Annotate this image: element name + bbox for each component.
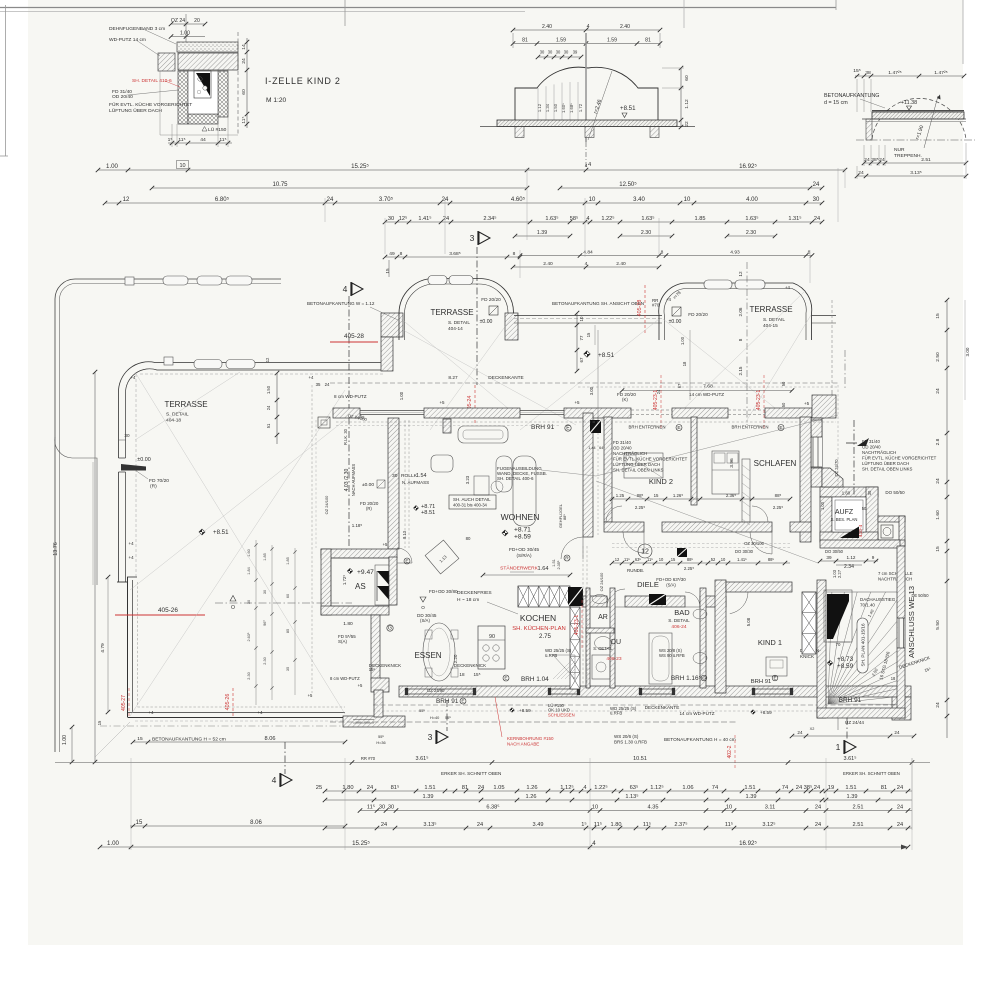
svg-text:+4: +4: [148, 710, 154, 715]
svg-text:SCHLAFEN: SCHLAFEN: [754, 459, 797, 468]
svg-text:8: 8: [661, 250, 664, 256]
svg-text:90: 90: [489, 634, 495, 640]
svg-text:405-26: 405-26: [225, 694, 231, 711]
svg-text:405-27: 405-27: [121, 695, 127, 711]
svg-text:2.30: 2.30: [263, 657, 267, 664]
svg-text:S(A): S(A): [338, 639, 347, 644]
svg-text:+8.59: +8.59: [519, 708, 531, 713]
svg-text:1.12: 1.12: [537, 103, 542, 112]
svg-text:1.00: 1.00: [107, 840, 120, 847]
svg-text:14 cm WD-PUTZ: 14 cm WD-PUTZ: [689, 392, 724, 397]
svg-text:3.00: 3.00: [965, 347, 970, 356]
svg-text:3.00: 3.00: [589, 386, 594, 395]
svg-text:+11.38: +11.38: [901, 100, 917, 106]
svg-text:+5: +5: [439, 400, 445, 405]
svg-text:35: 35: [286, 667, 290, 671]
svg-text:AS: AS: [355, 582, 366, 591]
svg-text:+4: +4: [309, 375, 315, 380]
svg-text:24: 24: [443, 216, 449, 222]
svg-text:(S/A): (S/A): [666, 583, 676, 588]
svg-text:+9.47: +9.47: [357, 569, 374, 576]
svg-text:18: 18: [459, 672, 465, 677]
svg-text:1.12: 1.12: [847, 555, 856, 560]
svg-text:55⁵: 55⁵: [378, 735, 384, 739]
svg-text:WOHNEN: WOHNEN: [501, 512, 540, 522]
svg-text:8.06: 8.06: [250, 820, 262, 826]
svg-text:±0.00: ±0.00: [480, 319, 493, 325]
svg-text:AR: AR: [598, 614, 608, 621]
svg-text:3.12⁵: 3.12⁵: [762, 821, 775, 828]
svg-text:11⁵: 11⁵: [219, 137, 226, 143]
svg-text:1⁵: 1⁵: [581, 821, 586, 828]
svg-text:3.61⁵: 3.61⁵: [416, 755, 429, 762]
svg-text:1.80: 1.80: [342, 785, 353, 791]
svg-text:BRH 91: BRH 91: [531, 424, 555, 431]
svg-text:4: 4: [586, 216, 589, 222]
svg-text:1.13⁵: 1.13⁵: [625, 793, 638, 800]
svg-text:+5: +5: [383, 542, 388, 547]
svg-text:39: 39: [573, 50, 578, 55]
svg-text:1.60: 1.60: [842, 491, 851, 496]
svg-text:S. DETAIL: S. DETAIL: [593, 646, 613, 651]
svg-text:LÜFTUNG ÜBER DACH: LÜFTUNG ÜBER DACH: [109, 107, 162, 114]
svg-text:1⁵: 1⁵: [168, 137, 173, 143]
svg-text:24: 24: [897, 822, 903, 828]
svg-text:30: 30: [263, 590, 267, 594]
svg-text:+4: +4: [129, 541, 135, 546]
svg-text:(S/R/A): (S/R/A): [516, 553, 532, 558]
svg-text:SH. PLAN 401-15/16: SH. PLAN 401-15/16: [861, 623, 866, 666]
svg-text:2.37⁵: 2.37⁵: [674, 821, 687, 828]
svg-text:8: 8: [400, 251, 403, 257]
svg-text:2.40: 2.40: [543, 261, 553, 267]
svg-text:1.63⁵: 1.63⁵: [745, 215, 758, 222]
svg-text:+4: +4: [257, 710, 263, 715]
svg-text:2.30: 2.30: [641, 230, 651, 236]
svg-text:2.8: 2.8: [935, 438, 941, 445]
svg-text:DO 30/30: DO 30/30: [735, 549, 754, 554]
svg-text:2.51: 2.51: [853, 822, 864, 828]
svg-text:81⁵: 81⁵: [391, 784, 400, 791]
svg-text:DE 50/50: DE 50/50: [911, 593, 929, 598]
svg-text:+8.71: +8.71: [514, 527, 531, 534]
svg-text:11⁵: 11⁵: [647, 557, 653, 562]
svg-text:2.35⁵: 2.35⁵: [557, 560, 561, 569]
svg-text:+4: +4: [785, 285, 791, 290]
svg-text:G: G: [702, 675, 706, 680]
svg-text:38: 38: [865, 70, 871, 76]
svg-text:4: 4: [585, 261, 588, 267]
svg-text:FD 70/20: FD 70/20: [149, 478, 169, 484]
svg-text:BRH ENTFERNEN: BRH ENTFERNEN: [732, 425, 769, 430]
svg-text:ERKER SH. SCHNITT OBEN: ERKER SH. SCHNITT OBEN: [441, 771, 501, 776]
svg-text:30: 30: [540, 50, 545, 55]
svg-text:11⁵: 11⁵: [241, 116, 247, 123]
svg-text:18: 18: [891, 676, 896, 681]
svg-text:60: 60: [241, 89, 247, 95]
svg-text:24: 24: [879, 157, 885, 163]
svg-text:400-31 bis 400-34: 400-31 bis 400-34: [453, 503, 488, 508]
svg-text:FD 31/40: FD 31/40: [613, 440, 631, 445]
svg-text:1.00: 1.00: [180, 31, 190, 37]
svg-text:S. DETAIL: S. DETAIL: [448, 320, 470, 326]
svg-text:+8.51: +8.51: [213, 529, 229, 536]
svg-text:(K): (K): [622, 397, 628, 402]
svg-text:63⁵: 63⁵: [630, 784, 639, 791]
svg-text:d = 15 cm: d = 15 cm: [824, 100, 848, 106]
svg-text:24: 24: [894, 730, 900, 735]
svg-text:KOCHEN: KOCHEN: [520, 613, 556, 623]
svg-text:1.00: 1.00: [820, 501, 825, 510]
svg-text:24: 24: [813, 182, 820, 188]
svg-text:1.25: 1.25: [616, 493, 625, 498]
svg-text:39: 39: [826, 555, 832, 560]
svg-text:8.06: 8.06: [265, 736, 276, 742]
svg-text:24: 24: [815, 805, 821, 811]
svg-text:1.80: 1.80: [343, 621, 353, 627]
svg-text:10: 10: [684, 197, 691, 203]
svg-text:BRH 91: BRH 91: [436, 698, 459, 705]
svg-text:DACHAUSSTIEG: DACHAUSSTIEG: [860, 597, 896, 602]
svg-text:12⁵: 12⁵: [399, 215, 408, 222]
svg-text:2.40: 2.40: [620, 24, 630, 30]
svg-text:1.39: 1.39: [847, 794, 858, 800]
svg-text:2.36⁵: 2.36⁵: [726, 493, 736, 498]
svg-text:DU: DU: [611, 639, 621, 646]
svg-text:24: 24: [325, 382, 330, 387]
svg-text:BRS 1.30 ü.RFB: BRS 1.30 ü.RFB: [614, 740, 647, 745]
svg-text:64⁵: 64⁵: [599, 446, 605, 450]
svg-text:BETONAUFKANTUNG SH. ANSICHT: BETONAUFKANTUNG SH. ANSICHT OBEN: [552, 301, 644, 306]
svg-text:1.22⁵: 1.22⁵: [601, 215, 614, 222]
svg-text:1: 1: [836, 742, 841, 752]
svg-text:FÜR EVTL. KÜCHE VORGERICHTET: FÜR EVTL. KÜCHE VORGERICHTET: [862, 456, 937, 461]
svg-text:WS 20/6 (S): WS 20/6 (S): [614, 734, 639, 739]
svg-text:S. BES. PLAN: S. BES. PLAN: [831, 517, 858, 522]
svg-text:ESSEN: ESSEN: [414, 651, 441, 660]
svg-text:1.26⁵: 1.26⁵: [673, 493, 683, 498]
svg-text:15.25⁵: 15.25⁵: [352, 840, 370, 847]
svg-text:19: 19: [828, 785, 834, 791]
svg-text:4.84: 4.84: [583, 250, 593, 256]
svg-text:KIND 2: KIND 2: [649, 477, 673, 486]
svg-text:14 cm WD-PUTZ: 14 cm WD-PUTZ: [679, 711, 714, 716]
svg-text:3.68⁵: 3.68⁵: [449, 251, 460, 257]
svg-text:3.13⁵: 3.13⁵: [423, 821, 436, 828]
svg-text:M 1:20: M 1:20: [266, 97, 286, 104]
svg-text:1.41⁵: 1.41⁵: [737, 557, 747, 562]
svg-text:+8.51: +8.51: [620, 105, 636, 112]
svg-text:2.75: 2.75: [539, 633, 552, 640]
svg-text:STÄNDERWERK: STÄNDERWERK: [500, 565, 538, 572]
svg-text:O: O: [421, 605, 425, 610]
svg-text:1.39: 1.39: [423, 794, 434, 800]
svg-text:1.50: 1.50: [553, 103, 558, 112]
svg-text:30: 30: [813, 197, 820, 203]
svg-text:1.00: 1.00: [62, 735, 68, 745]
svg-text:24: 24: [858, 170, 864, 176]
svg-text:30: 30: [548, 50, 553, 55]
svg-text:+4: +4: [666, 297, 672, 302]
svg-text:4.79: 4.79: [100, 643, 106, 653]
svg-text:1.00: 1.00: [680, 336, 685, 345]
svg-text:405-23-1: 405-23-1: [574, 615, 580, 636]
svg-text:24: 24: [935, 388, 941, 394]
svg-text:1.39: 1.39: [746, 794, 757, 800]
svg-text:DO 30/50: DO 30/50: [825, 549, 844, 554]
svg-text:3.96: 3.96: [729, 458, 735, 468]
svg-text:24: 24: [815, 822, 821, 828]
svg-text:406-24: 406-24: [671, 624, 686, 630]
svg-text:2.25⁵: 2.25⁵: [635, 505, 645, 510]
svg-text:22: 22: [684, 121, 690, 127]
svg-text:1.47²⁵: 1.47²⁵: [888, 70, 901, 76]
svg-text:405-26: 405-26: [158, 607, 178, 614]
svg-text:10: 10: [589, 197, 596, 203]
svg-text:DEHNFUGENBAND 3 cm: DEHNFUGENBAND 3 cm: [109, 26, 165, 32]
svg-text:1.44: 1.44: [588, 446, 595, 450]
svg-text:BRH 1.04: BRH 1.04: [521, 676, 549, 683]
svg-text:S. DETAIL: S. DETAIL: [763, 317, 785, 323]
svg-text:3.23: 3.23: [465, 475, 470, 484]
svg-text:3.40: 3.40: [633, 197, 645, 203]
svg-text:1.68⁵: 1.68⁵: [569, 103, 574, 113]
svg-text:11⁵: 11⁵: [594, 821, 602, 828]
svg-text:OZ 24/100: OZ 24/100: [599, 572, 604, 592]
svg-text:+5: +5: [358, 683, 363, 688]
svg-text:4.35: 4.35: [648, 805, 659, 811]
svg-text:24: 24: [266, 405, 271, 410]
svg-text:70/1.40: 70/1.40: [860, 603, 875, 608]
svg-text:3.49: 3.49: [533, 822, 544, 828]
svg-text:X2: X2: [810, 727, 815, 731]
svg-text:24: 24: [897, 785, 904, 791]
svg-text:DECKENKANTE: DECKENKANTE: [645, 705, 680, 710]
svg-text:30: 30: [564, 50, 569, 55]
svg-text:FD+OD 63⁵/30: FD+OD 63⁵/30: [656, 577, 686, 582]
svg-text:LÜ #150: LÜ #150: [208, 126, 227, 133]
svg-text:OZ 30/100: OZ 30/100: [744, 541, 765, 546]
svg-text:6.38⁵: 6.38⁵: [486, 804, 499, 811]
svg-text:405-28: 405-28: [344, 333, 364, 340]
svg-text:2.27: 2.27: [837, 569, 842, 578]
svg-text:1.51: 1.51: [845, 785, 856, 791]
svg-text:FD+OD 30/80: FD+OD 30/80: [429, 589, 458, 594]
svg-text:50: 50: [781, 381, 786, 386]
svg-text:S. DETAIL: S. DETAIL: [668, 618, 690, 623]
svg-text:ERKER SH. SCHNITT OBEN: ERKER SH. SCHNITT OBEN: [843, 771, 900, 776]
svg-text:404-15: 404-15: [763, 323, 778, 329]
svg-text:15⁵: 15⁵: [369, 667, 376, 672]
svg-text:8 cm WD-PUTZ: 8 cm WD-PUTZ: [334, 394, 367, 399]
svg-text:11⁵: 11⁵: [643, 821, 651, 828]
svg-text:30: 30: [392, 473, 398, 479]
svg-text:1.64: 1.64: [538, 566, 549, 572]
svg-text:96⁰: 96⁰: [263, 620, 267, 626]
svg-text:15: 15: [137, 736, 143, 742]
svg-text:3: 3: [428, 732, 433, 742]
svg-text:24: 24: [814, 216, 820, 222]
svg-text:30: 30: [379, 805, 385, 811]
svg-text:52: 52: [711, 557, 716, 562]
svg-text:4: 4: [592, 840, 596, 847]
svg-text:+8.51: +8.51: [598, 352, 615, 359]
svg-text:OD 20/40: OD 20/40: [613, 446, 632, 451]
svg-text:2.40: 2.40: [542, 24, 552, 30]
svg-text:4.00: 4.00: [746, 197, 758, 203]
svg-text:1.22⁵: 1.22⁵: [594, 784, 608, 791]
svg-text:24: 24: [241, 58, 247, 64]
svg-text:24: 24: [327, 197, 334, 203]
svg-text:4.60⁵: 4.60⁵: [511, 196, 526, 203]
svg-text:1.12⁵: 1.12⁵: [560, 784, 574, 791]
svg-text:12: 12: [123, 197, 130, 203]
svg-text:R.LK. 30: R.LK. 30: [343, 428, 348, 445]
svg-text:30: 30: [124, 433, 130, 438]
svg-text:49: 49: [389, 251, 395, 257]
svg-text:I-ZELLE KIND 2: I-ZELLE KIND 2: [265, 76, 341, 86]
svg-text:25: 25: [316, 785, 322, 791]
svg-text:#70: #70: [652, 303, 660, 308]
svg-text:DO 50/50: DO 50/50: [885, 490, 905, 495]
svg-text:BRH ENTFERNEN: BRH ENTFERNEN: [629, 425, 666, 430]
svg-text:+8.73: +8.73: [837, 656, 854, 663]
svg-text:1.80: 1.80: [611, 822, 622, 828]
svg-text:KIND 1: KIND 1: [758, 638, 782, 647]
svg-text:1.06: 1.06: [682, 785, 693, 791]
svg-text:2.40: 2.40: [616, 261, 626, 267]
svg-text:12.50⁵: 12.50⁵: [619, 181, 637, 188]
svg-text:BETONAUFKANTUNG H = 40 cm: BETONAUFKANTUNG H = 40 cm: [664, 737, 736, 743]
svg-text:3.70⁵: 3.70⁵: [379, 196, 394, 203]
svg-text:1.63⁵: 1.63⁵: [641, 215, 654, 222]
svg-text:12: 12: [738, 271, 743, 277]
svg-text:FD 31/40: FD 31/40: [862, 439, 880, 444]
svg-text:BETONAUFKANTUNG H = 52 cm: BETONAUFKANTUNG H = 52 cm: [152, 737, 226, 743]
svg-text:50: 50: [862, 506, 867, 511]
svg-text:81: 81: [462, 785, 468, 791]
svg-text:74: 74: [782, 785, 789, 791]
svg-text:81: 81: [522, 38, 528, 44]
svg-text:2.30: 2.30: [247, 672, 251, 679]
svg-text:E: E: [773, 675, 776, 680]
svg-text:38⁵: 38⁵: [871, 157, 878, 163]
svg-text:85: 85: [286, 629, 290, 633]
svg-text:1.00: 1.00: [399, 391, 404, 400]
svg-text:74: 74: [712, 785, 719, 791]
svg-text:±0.00: ±0.00: [669, 319, 682, 325]
svg-text:1.72⁵: 1.72⁵: [342, 575, 347, 585]
svg-text:15.25⁵: 15.25⁵: [351, 163, 369, 170]
svg-text:24: 24: [442, 197, 449, 203]
svg-text:1.85: 1.85: [263, 553, 267, 560]
svg-text:1.59: 1.59: [556, 38, 566, 44]
svg-text:30: 30: [867, 490, 872, 495]
svg-text:SH. DETAIL 410-6: SH. DETAIL 410-6: [132, 78, 172, 84]
svg-text:NACHTRÄGLICH: NACHTRÄGLICH: [613, 451, 647, 456]
svg-text:LÜFTUNG ÜBER DACH: LÜFTUNG ÜBER DACH: [862, 461, 909, 466]
svg-text:±0.00: ±0.00: [137, 457, 150, 463]
svg-text:10: 10: [179, 163, 185, 169]
svg-text:NACHTRÄGLICH: NACHTRÄGLICH: [878, 577, 912, 582]
svg-text:FD 20/20: FD 20/20: [688, 312, 708, 318]
svg-text:405-23-1: 405-23-1: [756, 390, 762, 411]
svg-text:1.85: 1.85: [286, 557, 290, 564]
svg-text:1.34: 1.34: [545, 103, 550, 112]
svg-text:BETONAUFKANTUNG: BETONAUFKANTUNG: [824, 93, 879, 99]
svg-text:5.50: 5.50: [935, 620, 941, 630]
svg-text:3.11: 3.11: [765, 805, 776, 811]
svg-text:1.72: 1.72: [578, 103, 583, 112]
svg-text:1.12⁵: 1.12⁵: [650, 784, 664, 791]
svg-text:11⁵: 11⁵: [624, 557, 630, 562]
svg-text:63⁵: 63⁵: [635, 557, 642, 562]
svg-text:NACHTRÄGLICH: NACHTRÄGLICH: [862, 450, 896, 455]
svg-text:+5: +5: [804, 401, 810, 406]
svg-text:30: 30: [388, 216, 394, 222]
svg-text:1.54: 1.54: [416, 473, 426, 479]
svg-text:18: 18: [682, 361, 687, 366]
svg-text:15⁵: 15⁵: [473, 672, 480, 677]
svg-text:44: 44: [200, 137, 206, 143]
svg-text:81: 81: [881, 785, 887, 791]
svg-text:2.34⁵: 2.34⁵: [483, 215, 496, 222]
svg-text:55⁵: 55⁵: [419, 709, 425, 713]
svg-text:(S/A): (S/A): [420, 618, 430, 623]
svg-text:H=40: H=40: [430, 716, 439, 720]
svg-text:24: 24: [656, 389, 661, 394]
svg-text:2.63⁵: 2.63⁵: [247, 632, 251, 641]
svg-text:8.27: 8.27: [448, 375, 458, 381]
svg-text:1.39: 1.39: [537, 230, 547, 236]
svg-text:60: 60: [684, 75, 690, 81]
svg-text:81: 81: [645, 38, 651, 44]
svg-text:KNICK: KNICK: [800, 654, 815, 659]
svg-text:30: 30: [247, 600, 251, 604]
svg-text:410-4: 410-4: [858, 524, 864, 537]
svg-text:88⁵: 88⁵: [775, 493, 782, 498]
svg-text:3.13⁵: 3.13⁵: [910, 170, 921, 176]
svg-text:20: 20: [194, 18, 200, 24]
svg-text:4.03 /2.30: 4.03 /2.30: [344, 468, 350, 491]
svg-text:10: 10: [579, 316, 584, 321]
svg-text:H=36: H=36: [376, 741, 385, 745]
svg-text:24: 24: [897, 805, 903, 811]
svg-text:1.60⁵: 1.60⁵: [561, 103, 566, 113]
svg-text:+8.59: +8.59: [514, 534, 531, 541]
svg-text:10: 10: [726, 805, 732, 811]
svg-text:8: 8: [738, 338, 743, 341]
svg-text:55⁵: 55⁵: [445, 716, 451, 720]
svg-text:OZ 24/100: OZ 24/100: [324, 495, 329, 515]
svg-text:30: 30: [556, 50, 561, 55]
svg-text:13.76: 13.76: [53, 542, 59, 555]
svg-text:11⁵: 11⁵: [178, 137, 185, 143]
svg-text:ü.RFB: ü.RFB: [545, 653, 557, 658]
svg-text:NUR: NUR: [894, 147, 905, 153]
svg-text:51: 51: [266, 423, 271, 428]
svg-text:4: 4: [587, 24, 590, 30]
svg-text:88⁵: 88⁵: [768, 557, 775, 562]
svg-text:+5: +5: [574, 400, 580, 405]
svg-text:7 cm SCHWELLE: 7 cm SCHWELLE: [878, 571, 913, 576]
svg-text:KERNBOHRUNG #150: KERNBOHRUNG #150: [507, 736, 554, 741]
svg-text:SH. AUCH DETAIL: SH. AUCH DETAIL: [453, 497, 491, 502]
svg-text:9: 9: [872, 555, 875, 560]
svg-text:N. AUFMASS: N. AUFMASS: [402, 480, 429, 485]
svg-text:24: 24: [367, 785, 374, 791]
svg-text:4: 4: [585, 163, 588, 168]
